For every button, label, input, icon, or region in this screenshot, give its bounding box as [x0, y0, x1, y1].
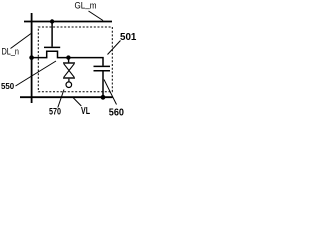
svg-text:570: 570: [49, 106, 61, 117]
svg-text:550: 550: [1, 82, 15, 91]
svg-text:DL_n: DL_n: [2, 45, 20, 56]
svg-text:VL: VL: [81, 106, 90, 117]
svg-text:GL_m: GL_m: [75, 0, 97, 11]
svg-text:501: 501: [120, 31, 137, 43]
svg-text:560: 560: [109, 108, 125, 119]
